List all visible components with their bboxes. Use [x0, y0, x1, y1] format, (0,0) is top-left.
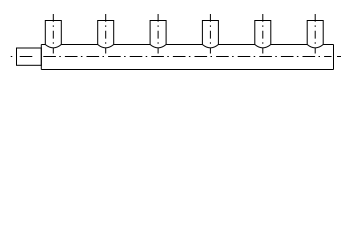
stud S3 centerline: [157, 14, 159, 54]
branch stud S3: [150, 21, 166, 45]
branch stud S1: [45, 21, 61, 45]
stud S3 saddle arc: [150, 45, 166, 48]
stud S5 centerline: [262, 14, 264, 54]
branch stud S4: [202, 21, 218, 45]
stud S1 centerline: [52, 14, 54, 54]
branch stud S2: [98, 21, 114, 45]
stud S1 saddle arc: [45, 45, 61, 48]
stud S4 saddle arc: [202, 45, 218, 48]
header pipe body: [41, 45, 333, 70]
stud S6 centerline: [314, 14, 316, 54]
horizontal centerline: [11, 56, 341, 58]
stud S2 centerline: [105, 14, 107, 54]
branch stud S6: [307, 21, 323, 45]
stud S2 saddle arc: [98, 45, 114, 48]
branch stud S5: [255, 21, 271, 45]
stud S5 saddle arc: [255, 45, 271, 48]
stud S4 centerline: [209, 14, 211, 54]
stud S6 saddle arc: [307, 45, 323, 48]
inlet stub: [17, 48, 42, 65]
